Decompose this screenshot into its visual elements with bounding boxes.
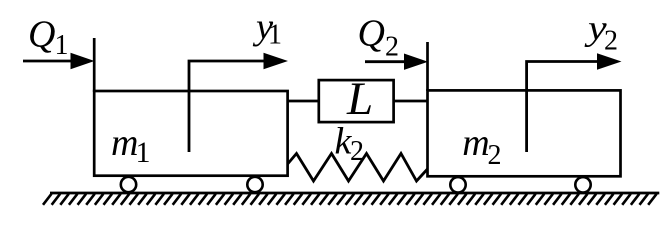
svg-text:2: 2 xyxy=(488,140,502,171)
svg-text:2: 2 xyxy=(604,26,618,57)
svg-text:2: 2 xyxy=(385,32,399,63)
svg-text:m: m xyxy=(111,122,138,164)
svg-text:1: 1 xyxy=(136,136,151,169)
svg-text:1: 1 xyxy=(55,30,69,61)
svg-text:L: L xyxy=(346,73,373,125)
svg-text:2: 2 xyxy=(350,136,364,167)
svg-text:Q: Q xyxy=(358,13,385,55)
svg-text:m: m xyxy=(462,122,489,164)
svg-text:1: 1 xyxy=(268,20,282,51)
svg-text:Q: Q xyxy=(28,14,55,56)
